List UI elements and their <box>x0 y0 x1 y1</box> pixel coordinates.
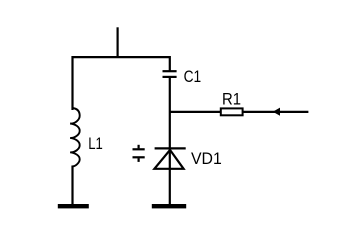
varicap marker (small capacitor symbol) <box>133 145 145 162</box>
diode VD1 triangle <box>154 150 183 169</box>
antenna stub wire <box>116 27 118 58</box>
wire L1 to ground <box>71 166 73 206</box>
inductor L1 coil <box>70 108 80 166</box>
wire C1 down through node to ground <box>169 78 171 205</box>
ground (left) <box>58 204 89 208</box>
svg-text:L1: L1 <box>88 134 103 153</box>
svg-text:C1: C1 <box>184 67 202 86</box>
ground (middle) <box>152 204 186 208</box>
diode VD1 cathode bar <box>155 147 186 149</box>
capacitor C1 plate top <box>163 70 177 72</box>
svg-text:VD1: VD1 <box>191 149 222 168</box>
capacitor C1 plate bottom <box>163 76 177 78</box>
resistor R1 body <box>221 108 243 115</box>
top wire <box>73 57 170 110</box>
wire R1 horizontal <box>170 111 309 113</box>
arrow (signal in, pointing left) <box>273 108 280 116</box>
svg-text:R1: R1 <box>222 89 241 108</box>
